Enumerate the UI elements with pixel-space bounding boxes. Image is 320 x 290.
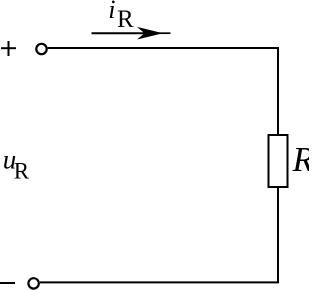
svg-text:i: i bbox=[108, 0, 115, 24]
svg-text:R: R bbox=[14, 158, 30, 183]
svg-text:R: R bbox=[117, 6, 134, 33]
svg-text:R: R bbox=[292, 140, 310, 179]
